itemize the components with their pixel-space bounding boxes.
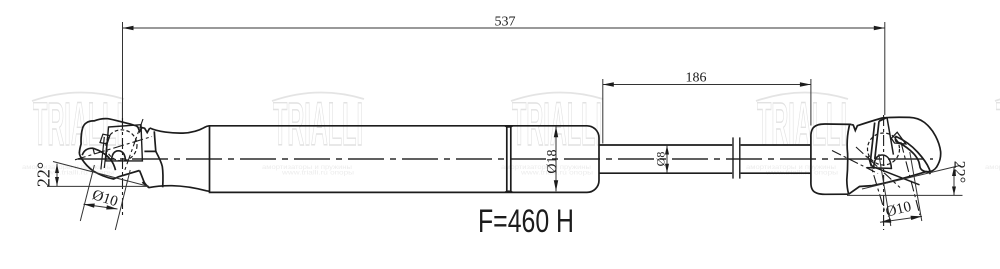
right bracket bottom edge with ramp bbox=[849, 172, 931, 195]
left bracket tab double lines bbox=[101, 137, 104, 170]
right bracket steep centerline b bbox=[901, 142, 920, 215]
arrow right angle top bbox=[952, 167, 956, 176]
body crimp groove bbox=[506, 126, 508, 192]
arrow left d10 right bbox=[106, 205, 117, 209]
right d10 extension b bbox=[910, 152, 922, 221]
svg-text:Ø10: Ø10 bbox=[90, 187, 120, 210]
left d10 dim line bbox=[84, 204, 118, 209]
right bracket bbox=[832, 115, 941, 230]
right d10 extension a bbox=[879, 154, 891, 226]
svg-text:Ø10: Ø10 bbox=[884, 199, 913, 221]
right bracket lip claw bbox=[895, 137, 929, 172]
left d10 extension b bbox=[115, 170, 130, 230]
arrow left angle top bbox=[55, 164, 59, 173]
left connector bottom edge bbox=[142, 182, 209, 191]
left angle horizontal leg bbox=[47, 185, 149, 187]
arrow 186 left bbox=[603, 82, 614, 86]
arrow 537 right bbox=[874, 26, 885, 30]
left angle slanted leg bbox=[53, 162, 149, 187]
dimensions bbox=[47, 22, 963, 230]
rod break lines bbox=[732, 137, 734, 178]
arrow right d10 left bbox=[880, 219, 891, 223]
svg-text:F=460 H: F=460 H bbox=[478, 203, 574, 239]
svg-text:186: 186 bbox=[686, 71, 707, 86]
piston rod bbox=[599, 137, 811, 178]
arrow 186 right bbox=[800, 82, 811, 86]
right bracket hole dome bbox=[874, 155, 892, 169]
left bracket lip fold bbox=[93, 148, 94, 154]
svg-text:Ø8: Ø8 bbox=[653, 152, 667, 167]
dim 537 right extension bbox=[884, 22, 886, 115]
svg-text:22°: 22° bbox=[33, 162, 53, 187]
left bracket bottom corner to connector bbox=[140, 171, 150, 188]
dim 186 left extension bbox=[602, 79, 604, 144]
dim d18 line bbox=[555, 126, 557, 191]
arrow 537 left bbox=[123, 26, 134, 30]
left connector top edge sag bbox=[150, 126, 210, 133]
right angle horizontal leg bbox=[847, 194, 963, 196]
left bracket lip upper arc bbox=[93, 148, 116, 170]
left bracket hole axis centerline bbox=[125, 119, 144, 171]
right bracket hole axis centerline bbox=[856, 147, 900, 188]
left bracket bbox=[75, 118, 152, 217]
right d10 dim line bbox=[880, 216, 922, 222]
right bracket clinch tab bbox=[891, 132, 906, 144]
arrow d18 bottom bbox=[554, 180, 558, 191]
right bracket steep centerline a bbox=[868, 156, 885, 212]
arrow d8 bottom bbox=[665, 164, 669, 173]
arrow d18 top bbox=[554, 126, 558, 137]
right bracket plate bottom edge bbox=[874, 167, 920, 185]
arrow right d10 right bbox=[911, 216, 923, 220]
right connector bbox=[811, 124, 851, 194]
arrow d8 top bbox=[665, 145, 669, 154]
left bracket lip curl bbox=[82, 148, 93, 155]
right bracket plate top edge bbox=[879, 118, 887, 122]
right bracket dome base line bbox=[867, 167, 892, 170]
arrow left d10 left bbox=[84, 204, 95, 208]
main centerline bbox=[78, 158, 933, 160]
right bracket ball hidden circle bbox=[868, 133, 900, 165]
dim 537 line bbox=[123, 27, 885, 29]
dim 186 line bbox=[603, 84, 811, 86]
right connector outline bbox=[811, 124, 851, 194]
dim 537 left extension bbox=[122, 22, 124, 118]
left bracket ball hidden circle bbox=[106, 130, 137, 161]
dim 186 right extension bbox=[810, 79, 812, 126]
left bracket axis centerline bbox=[75, 137, 152, 160]
right bracket vertical centerline bbox=[883, 115, 885, 230]
left bracket hole dome bbox=[111, 151, 125, 162]
arrow left angle bottom bbox=[55, 177, 59, 186]
right bracket plate left double lines bbox=[870, 123, 874, 168]
right bracket outer outline with V-notch bbox=[851, 117, 940, 171]
right bracket axis centerline bbox=[832, 151, 878, 174]
left bracket outer outline with W-notch bbox=[79, 119, 149, 179]
left bracket vertical centerline bbox=[122, 118, 124, 217]
svg-text:537: 537 bbox=[495, 15, 516, 30]
body tube bbox=[210, 126, 600, 193]
left angle arrow line bbox=[56, 164, 58, 187]
left connector cup lower curve bbox=[156, 151, 163, 187]
right bracket plate right edge bbox=[887, 118, 893, 155]
right connector cup curve bbox=[847, 125, 850, 194]
right angle arrow line bbox=[953, 167, 955, 195]
arrow right angle bottom bbox=[952, 187, 956, 196]
left connector bbox=[142, 126, 209, 192]
svg-text:22°: 22° bbox=[951, 161, 968, 183]
left bracket plate bbox=[106, 125, 143, 161]
dim d8 line bbox=[666, 145, 668, 173]
left connector cup front edge bbox=[144, 131, 155, 151]
left bracket clinch tab bbox=[100, 134, 110, 144]
right angle slanted leg bbox=[862, 165, 961, 189]
svg-text:Ø18: Ø18 bbox=[545, 149, 560, 173]
left d10 extension a bbox=[80, 165, 94, 221]
